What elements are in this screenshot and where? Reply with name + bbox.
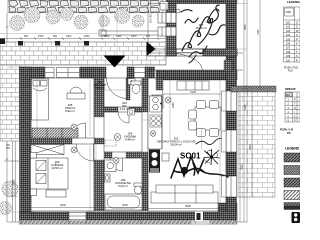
legenda title bbox=[285, 147, 300, 151]
svg-text:LEGEND: LEGEND bbox=[285, 147, 300, 151]
koupelna toilet bbox=[134, 183, 142, 194]
terrace vertical lines bbox=[240, 0, 260, 222]
svg-text:1500: 1500 bbox=[131, 35, 137, 38]
gate post left edge bbox=[0, 39, 5, 45]
kitchen hob bbox=[150, 115, 162, 127]
wall top exterior bbox=[20, 67, 238, 80]
svg-text:3600: 3600 bbox=[13, 179, 16, 185]
legend swatch5 bbox=[284, 203, 300, 210]
table2 specifikace bbox=[285, 92, 300, 122]
svg-text:2130: 2130 bbox=[190, 90, 196, 94]
brick paving band top bbox=[0, 42, 166, 65]
retaining wall thin rect bbox=[99, 30, 166, 36]
door bottom terrace threshold bbox=[195, 212, 203, 220]
misc thin guide lines bbox=[101, 13, 166, 78]
interior wall wc/zadveri vertical bbox=[126, 78, 130, 100]
svg-text:900: 900 bbox=[24, 35, 29, 38]
legend appliance icon bbox=[292, 212, 301, 223]
svg-text:1800: 1800 bbox=[66, 35, 72, 38]
room outline lines bbox=[31, 4, 226, 212]
table legend mistnosti title bbox=[287, 0, 305, 4]
svg-text:1500: 1500 bbox=[38, 35, 44, 38]
scrawl living zigzag bbox=[171, 157, 228, 178]
svg-text:O: O bbox=[296, 22, 298, 25]
svg-text:IZN: IZN bbox=[286, 94, 290, 97]
annex window a2 bbox=[158, 27, 176, 36]
fence posts bbox=[18, 41, 89, 46]
dim line bottom interior bbox=[31, 94, 226, 209]
koupelna bathtub bbox=[105, 194, 142, 210]
svg-text:3845: 3845 bbox=[244, 24, 247, 30]
svg-text:3900: 3900 bbox=[249, 144, 252, 150]
svg-text:SPECIF: SPECIF bbox=[285, 87, 296, 91]
wall bottom exterior bbox=[20, 203, 238, 223]
svg-text:2620: 2620 bbox=[241, 164, 244, 170]
terrace big bricks bbox=[238, 92, 275, 197]
dining table bbox=[195, 107, 221, 130]
svg-text:2080: 2080 bbox=[172, 102, 175, 108]
svg-text:7150: 7150 bbox=[257, 29, 260, 35]
note text pozn2 bbox=[280, 129, 293, 136]
interior wall chodba/koupelna horizontal bbox=[104, 152, 148, 158]
entry wardrobe row bbox=[177, 81, 209, 90]
terrace top edge band bbox=[231, 86, 276, 92]
interior wall wc right vertical bbox=[142, 78, 148, 110]
svg-text:1200: 1200 bbox=[104, 35, 110, 38]
svg-text:3600: 3600 bbox=[60, 203, 66, 207]
window top w1 bbox=[45, 68, 54, 78]
appliance tower dark bbox=[149, 150, 160, 173]
kitchen sink double bowl bbox=[150, 96, 162, 112]
wardrobe pokoj bbox=[32, 128, 78, 138]
dimension line vertical left bbox=[4, 13, 19, 222]
note text pozn1 bbox=[284, 67, 298, 73]
stone rubble band top bbox=[8, 0, 163, 13]
corridor lines bbox=[147, 53, 243, 70]
svg-text:1385: 1385 bbox=[244, 104, 247, 110]
svg-text:26,04 m²: 26,04 m² bbox=[170, 143, 181, 147]
bench box outside bbox=[160, 2, 168, 11]
window bottom loznice bbox=[69, 213, 86, 220]
svg-text:LEGENDA M: LEGENDA M bbox=[287, 0, 300, 4]
window right w3 bbox=[226, 176, 237, 197]
wc toilet bbox=[131, 81, 141, 94]
SO01 big label bbox=[180, 152, 201, 161]
koupelna sink bbox=[105, 174, 111, 182]
svg-text:106: 106 bbox=[286, 43, 291, 46]
scrawl crossing wall bbox=[189, 46, 207, 63]
entrance triangle marker bbox=[104, 56, 126, 68]
svg-text:2,12 m²: 2,12 m² bbox=[120, 107, 130, 111]
legend swatch3 bbox=[284, 178, 300, 187]
door pokoj arc bbox=[71, 123, 86, 138]
room label wc bbox=[120, 101, 130, 111]
svg-text:975: 975 bbox=[146, 35, 151, 38]
specifikace title bbox=[285, 87, 296, 91]
column marker circle bbox=[176, 9, 180, 13]
double bed loznice bbox=[31, 153, 69, 198]
side entrance triangle bbox=[147, 42, 156, 57]
dim text 3600 loznice bbox=[60, 90, 196, 208]
svg-text:9,92 m²: 9,92 m² bbox=[65, 109, 75, 113]
bush shrubs row top bbox=[10, 7, 145, 31]
interior wall chodba/koupelna left vertical bbox=[94, 160, 104, 211]
tiny dim numbers top bbox=[24, 35, 151, 38]
svg-text:2000: 2000 bbox=[122, 203, 128, 207]
svg-text:105: 105 bbox=[286, 38, 291, 41]
dining chairs bbox=[189, 101, 219, 137]
electrical symbol circles bbox=[71, 97, 171, 164]
window right w2 bbox=[226, 130, 237, 152]
interior wall zadveri/living vertical bbox=[142, 77, 163, 79]
handwritten scrawl annex bbox=[181, 5, 225, 51]
window sills living right bbox=[222, 91, 227, 197]
small box near tower bbox=[162, 153, 169, 161]
window top w4 bbox=[134, 68, 145, 78]
svg-text:104: 104 bbox=[286, 34, 291, 37]
dim rotated numbers right bbox=[172, 24, 260, 170]
annex top wall bbox=[166, 0, 237, 4]
corridor pier bbox=[224, 60, 232, 71]
room label chodba bbox=[124, 132, 136, 142]
svg-text:900: 900 bbox=[53, 35, 58, 38]
svg-text:OZN: OZN bbox=[286, 11, 291, 14]
plant symbol bbox=[204, 149, 220, 165]
room label obyvaci bbox=[157, 137, 196, 147]
svg-text:13,59 m²: 13,59 m² bbox=[51, 166, 62, 170]
svg-text:101: 101 bbox=[286, 22, 291, 25]
wardrobe loznice with cross bbox=[31, 145, 64, 155]
room label loznice bbox=[51, 160, 64, 170]
kitchen counter bbox=[148, 96, 162, 149]
svg-text:2250: 2250 bbox=[84, 35, 90, 38]
extra guide lines bbox=[0, 4, 247, 213]
svg-text:102: 102 bbox=[286, 26, 291, 29]
interior wall koupelna/living vertical bbox=[142, 158, 148, 211]
svg-text:108: 108 bbox=[286, 51, 291, 54]
annex left wall bbox=[166, 4, 176, 57]
svg-text:103: 103 bbox=[286, 30, 291, 33]
svg-text:107: 107 bbox=[286, 47, 291, 50]
svg-text:H: H bbox=[294, 107, 296, 110]
window right w1 bbox=[226, 91, 237, 111]
svg-text:4,48 m²: 4,48 m² bbox=[125, 138, 135, 142]
legend swatch4 bbox=[284, 191, 300, 200]
tiny dim label left bbox=[6, 145, 11, 150]
svg-text:109: 109 bbox=[286, 55, 291, 58]
brick paving strip left bbox=[0, 65, 20, 141]
annex bottom wall bbox=[166, 49, 237, 56]
sofa living bbox=[151, 185, 218, 203]
door loznice arc bbox=[76, 144, 94, 162]
svg-text:5,43 m²: 5,43 m² bbox=[118, 184, 128, 188]
desk chair pokoj bbox=[67, 87, 85, 99]
door living arc bbox=[151, 90, 163, 102]
annex window a1 bbox=[158, 13, 176, 24]
window top w2 wide bbox=[57, 68, 80, 78]
dimension line horizontal top with ticks bbox=[0, 37, 166, 40]
komora washer circles bbox=[152, 95, 163, 108]
entry doormat box bbox=[128, 79, 135, 85]
svg-text:3,40 m²: 3,40 m² bbox=[95, 86, 105, 90]
entrance door arc bbox=[107, 78, 128, 99]
interior dim chains bbox=[37, 13, 220, 210]
door koupelna arc bbox=[110, 159, 123, 172]
paving strip below bottom wall bbox=[19, 221, 237, 225]
room label annex bbox=[195, 23, 206, 30]
wall left exterior bbox=[20, 67, 32, 212]
room label koupelna bbox=[115, 178, 131, 188]
corridor door arc bbox=[177, 53, 203, 70]
drain box chodba bbox=[128, 109, 135, 116]
bushes left side bbox=[0, 181, 18, 215]
kitchen symbol circle bbox=[150, 131, 156, 137]
svg-text:600/1400: 600/1400 bbox=[151, 13, 153, 23]
koupelna washer bbox=[105, 160, 117, 172]
interior wall kitchen pier bbox=[156, 78, 163, 90]
svg-text:PO: PO bbox=[287, 132, 291, 135]
legend swatch1 bbox=[284, 153, 300, 162]
legend swatch2 bbox=[284, 166, 300, 175]
interior wall pokoj/loznice horizontal bbox=[31, 138, 104, 144]
bottom dimension lines bbox=[7, 221, 247, 225]
chodba dashed box bbox=[105, 140, 116, 146]
wall right exterior bbox=[226, 0, 237, 211]
interior wall pokoj/zadveri vertical bbox=[94, 78, 104, 117]
scrawl living wave bbox=[196, 138, 224, 144]
door wc arc bbox=[118, 112, 129, 123]
annex bottom wall piers bbox=[166, 49, 237, 56]
table1 rooms bbox=[284, 7, 301, 62]
bed pokoj bbox=[32, 79, 49, 120]
svg-text:110: 110 bbox=[286, 59, 291, 62]
room label zadveri bbox=[94, 80, 107, 90]
room label pokoj bbox=[65, 103, 75, 113]
svg-text:3625: 3625 bbox=[185, 204, 191, 208]
svg-text:PLO: PLO bbox=[288, 70, 293, 73]
svg-text:C: C bbox=[296, 34, 298, 37]
interior wall wc/chodba horizontal bbox=[104, 107, 148, 112]
